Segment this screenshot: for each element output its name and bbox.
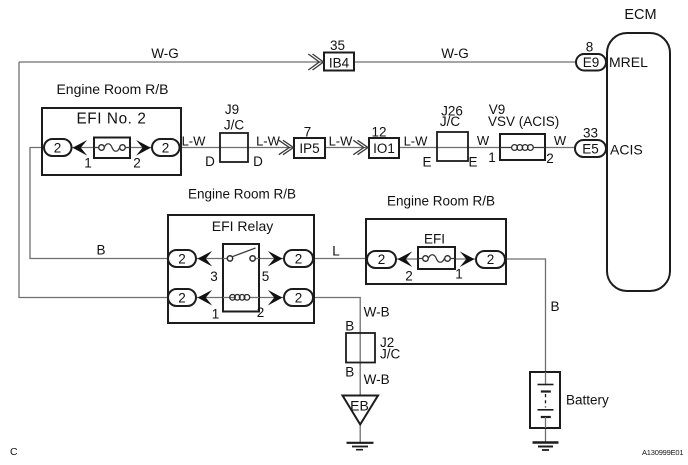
svg-text:7: 7 xyxy=(304,125,312,140)
svg-text:1: 1 xyxy=(455,267,463,282)
svg-text:B: B xyxy=(550,299,559,314)
svg-text:33: 33 xyxy=(583,126,598,141)
svg-text:2: 2 xyxy=(178,290,186,305)
svg-text:Engine Room R/B: Engine Room R/B xyxy=(387,194,495,209)
svg-text:ACIS: ACIS xyxy=(610,142,643,158)
svg-text:J/C: J/C xyxy=(224,118,245,133)
svg-text:D: D xyxy=(253,154,263,169)
svg-text:W: W xyxy=(554,133,567,148)
svg-text:1: 1 xyxy=(212,307,220,322)
svg-text:Engine Room R/B: Engine Room R/B xyxy=(56,81,168,97)
svg-text:IB4: IB4 xyxy=(329,56,350,71)
svg-text:VSV (ACIS): VSV (ACIS) xyxy=(488,114,559,129)
svg-text:2: 2 xyxy=(162,140,170,155)
svg-text:2: 2 xyxy=(487,252,495,267)
svg-text:B: B xyxy=(96,243,105,258)
svg-text:W-G: W-G xyxy=(441,46,469,61)
svg-text:J/C: J/C xyxy=(440,114,461,129)
svg-text:A130999E01: A130999E01 xyxy=(642,448,683,457)
svg-text:J/C: J/C xyxy=(380,347,401,362)
svg-text:W-B: W-B xyxy=(364,372,390,387)
svg-text:12: 12 xyxy=(371,125,386,140)
svg-text:5: 5 xyxy=(262,269,270,284)
svg-text:2: 2 xyxy=(378,252,386,267)
svg-text:EFI: EFI xyxy=(424,232,445,247)
svg-text:2: 2 xyxy=(546,151,554,166)
svg-text:L-W: L-W xyxy=(329,134,354,149)
svg-text:E: E xyxy=(422,155,431,170)
svg-text:8: 8 xyxy=(586,40,594,55)
svg-text:2: 2 xyxy=(257,305,265,320)
svg-text:35: 35 xyxy=(330,38,345,53)
svg-text:J9: J9 xyxy=(225,102,239,117)
svg-text:IP5: IP5 xyxy=(299,141,319,156)
svg-text:D: D xyxy=(205,154,215,169)
svg-text:EB: EB xyxy=(350,398,369,414)
svg-text:2: 2 xyxy=(405,269,413,284)
svg-text:B: B xyxy=(345,365,354,380)
svg-text:1: 1 xyxy=(488,150,496,165)
svg-text:2: 2 xyxy=(133,156,141,171)
svg-text:3: 3 xyxy=(210,269,218,284)
svg-text:L-W: L-W xyxy=(256,134,281,149)
svg-text:L-W: L-W xyxy=(404,134,429,149)
svg-text:2: 2 xyxy=(54,140,62,155)
svg-text:L: L xyxy=(332,244,340,259)
svg-text:Battery: Battery xyxy=(566,393,609,408)
svg-text:MREL: MREL xyxy=(609,54,648,70)
svg-text:E9: E9 xyxy=(583,55,600,70)
svg-text:E: E xyxy=(468,155,477,170)
svg-text:C: C xyxy=(10,446,18,458)
svg-text:E5: E5 xyxy=(582,142,599,157)
svg-text:IO1: IO1 xyxy=(373,141,395,156)
svg-text:L-W: L-W xyxy=(182,134,207,149)
svg-text:EFI Relay: EFI Relay xyxy=(212,218,273,234)
svg-text:EFI No. 2: EFI No. 2 xyxy=(76,111,146,128)
svg-text:ECM: ECM xyxy=(624,7,656,23)
svg-text:W-B: W-B xyxy=(364,305,390,320)
svg-text:2: 2 xyxy=(178,251,186,266)
svg-text:2: 2 xyxy=(295,290,303,305)
svg-text:1: 1 xyxy=(84,156,92,171)
svg-text:B: B xyxy=(345,319,354,334)
svg-text:Engine Room R/B: Engine Room R/B xyxy=(188,187,296,202)
svg-text:2: 2 xyxy=(295,251,303,266)
svg-text:W-G: W-G xyxy=(151,46,179,61)
svg-text:W: W xyxy=(477,133,490,148)
